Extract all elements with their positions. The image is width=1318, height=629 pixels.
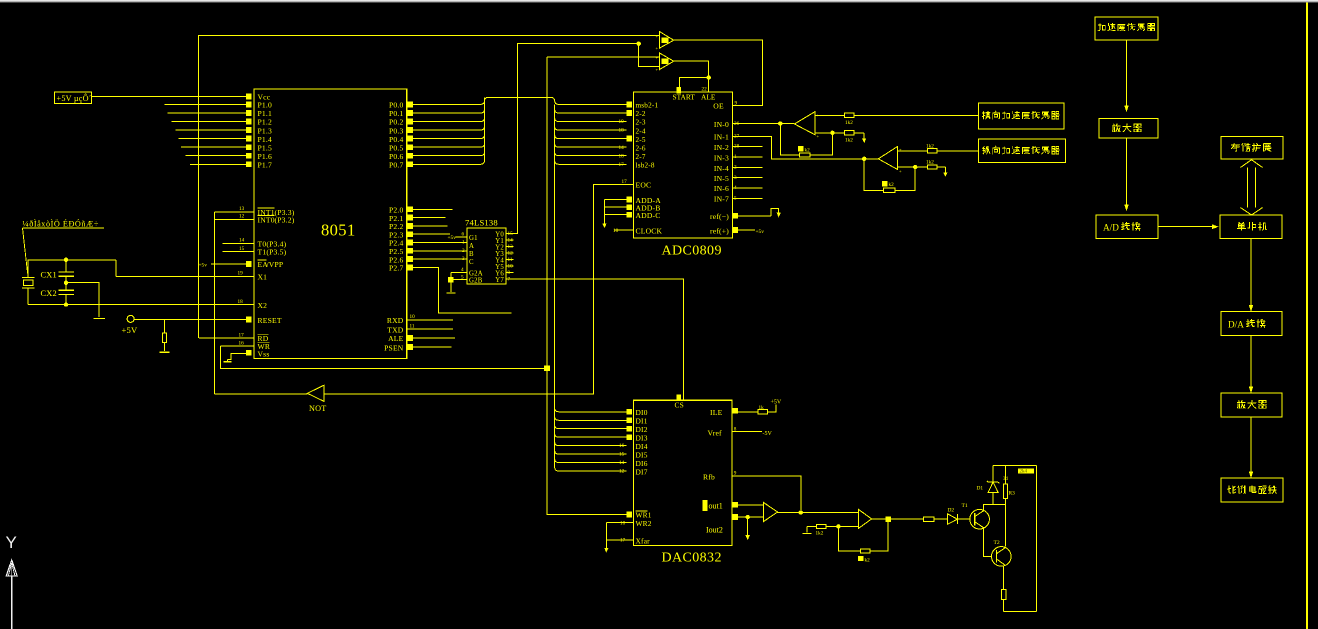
flow arrow 3 (A/D to MCU) (1157, 226, 1159, 228)
junction (Y0 net at opamps) (637, 42, 641, 46)
wire P0 bus horizontal (485, 97, 555, 101)
wire INT net vertical (214, 212, 216, 394)
flowchart box: accel sensor (1095, 17, 1158, 40)
ground arrow (Xfar) (604, 548, 608, 553)
svg-text:+5V: +5V (122, 325, 139, 335)
svg-text:IN-2: IN-2 (714, 143, 729, 152)
U1 pin EA/VPP +5v (211, 263, 246, 265)
junction node (X1 net) (64, 258, 68, 262)
svg-text:12: 12 (508, 251, 514, 257)
svg-text:Vss: Vss (258, 350, 270, 359)
op-amp U9 (764, 503, 778, 522)
svg-text:IN-0: IN-0 (714, 120, 729, 129)
sensor label box (lateral) (978, 103, 1064, 129)
U1 pin INT0(P3.2) (215, 218, 254, 220)
wires bus to U3 data inputs (555, 100, 627, 104)
svg-text:D/A: D/A (1228, 320, 1244, 330)
wire U5 output to U3 OE (674, 40, 763, 105)
svg-text:DI7: DI7 (636, 467, 648, 476)
svg-text:16: 16 (239, 341, 245, 347)
flowchart box: prop. electromagnet (1221, 478, 1283, 502)
wire Y0 to U6 input (639, 44, 660, 67)
svg-text:2k4: 2k4 (1020, 470, 1028, 475)
svg-text:2-4: 2-4 (636, 127, 646, 135)
ground (R5) (159, 351, 169, 353)
svg-text:X2: X2 (258, 301, 268, 310)
resistor R14 feedback U10 (838, 526, 860, 551)
junction (IN-1) (862, 157, 866, 161)
svg-text:T2: T2 (994, 540, 1000, 546)
crystal XT body (23, 280, 33, 285)
svg-text:14: 14 (239, 238, 245, 244)
resistor R13 1k2 (U10 -in) (807, 525, 816, 527)
svg-text:G2B: G2B (469, 278, 483, 285)
resistor R3 (1004, 466, 1006, 485)
svg-text:Y: Y (6, 533, 17, 552)
svg-text:Y7: Y7 (495, 277, 504, 284)
wire ADD common (604, 200, 606, 225)
svg-text:WR2: WR2 (636, 519, 652, 528)
svg-text:TXD: TXD (387, 325, 404, 334)
resistor R15 (924, 517, 934, 521)
svg-text:+: + (817, 134, 820, 139)
svg-text:k2: k2 (889, 182, 895, 188)
U2 pin G2A (451, 271, 467, 273)
ground (R13) (806, 526, 808, 532)
electromagnet supply rail (993, 465, 1037, 467)
flowchart box: A/D convert (1096, 215, 1158, 239)
flowchart box: D/A convert (1221, 312, 1282, 336)
wire IN-0 (733, 123, 795, 125)
svg-text:10: 10 (613, 228, 619, 234)
svg-text:Vref: Vref (708, 429, 723, 438)
wires Y1-Y6 stubs (506, 239, 514, 241)
transistor T2 (992, 547, 1012, 567)
U1 pin T1(P3.5) (223, 251, 254, 253)
svg-text:T1(P3.5): T1(P3.5) (258, 248, 287, 257)
svg-text:+: + (656, 34, 659, 39)
svg-text:+5v: +5v (756, 229, 765, 235)
wire T1 emitter to T2 (984, 528, 992, 557)
svg-text:CS: CS (675, 401, 684, 410)
svg-text:-5V: -5V (763, 431, 773, 437)
leader line to crystal (23, 228, 28, 274)
wire P0 bus vertical (484, 97, 486, 100)
wire crystal top (28, 260, 116, 278)
junction (U8 -in) (913, 165, 917, 169)
window top border strip (0, 0, 1318, 3)
resistor R12 1k (ILE pullup) (738, 411, 758, 413)
UCS icon arrow (6, 560, 17, 576)
U1 pins Vcc,P1.0-P1.7 (squares+wires) (246, 94, 252, 100)
wire WR to opamp U6 input (547, 56, 659, 58)
wire X1 bend (115, 260, 117, 277)
wire crystal bottom (27, 288, 29, 305)
diode D2 (948, 514, 958, 524)
U2 pin G2B (451, 279, 467, 281)
svg-text:15: 15 (239, 246, 245, 252)
resistor R7 1k2 (U7 -in) (815, 132, 844, 134)
flow arrow 4 (MCU down) (1250, 239, 1252, 306)
ground (Vss) (227, 360, 229, 362)
svg-text:1k2: 1k2 (926, 160, 934, 166)
sensor label box (longitudinal) (978, 139, 1065, 163)
electromagnet loop right (1036, 466, 1038, 612)
svg-text:X1: X1 (258, 273, 268, 282)
svg-text:P1.7: P1.7 (258, 161, 273, 170)
flow arrow 5 (1250, 336, 1252, 387)
op-amp U5 (659, 32, 673, 49)
svg-text:k2: k2 (805, 147, 811, 153)
svg-text:+: + (899, 147, 902, 152)
svg-text:10: 10 (410, 314, 416, 320)
svg-text:15: 15 (619, 452, 625, 458)
svg-text:18: 18 (619, 153, 625, 159)
resistor R5 (reset pulldown) (163, 320, 165, 334)
svg-text:19: 19 (238, 271, 244, 277)
wire Iout2 to U9 (738, 516, 764, 518)
svg-text:IN-4: IN-4 (714, 164, 729, 173)
svg-text:R3: R3 (1009, 491, 1016, 497)
svg-text:3: 3 (462, 256, 465, 262)
svg-text:3d: 3d (1003, 477, 1008, 482)
svg-text:IN-1: IN-1 (714, 133, 729, 142)
svg-text:EOC: EOC (636, 181, 652, 190)
op-amp U7 (IN-0) (795, 112, 816, 135)
junction (IN-0) (778, 121, 782, 125)
svg-text:17: 17 (622, 179, 628, 185)
svg-text:G2A: G2A (469, 271, 483, 278)
svg-text:OE: OE (713, 102, 724, 111)
svg-text:CLOCK: CLOCK (636, 226, 663, 235)
svg-text:D1: D1 (977, 486, 984, 492)
svg-text:4: 4 (461, 267, 464, 273)
resistor R9 1k2 (U8 +in) (898, 150, 928, 152)
svg-text:k2: k2 (865, 557, 871, 563)
svg-text:NOT: NOT (309, 404, 326, 413)
svg-text:+5V µçÔ´: +5V µçÔ´ (57, 93, 92, 103)
flowchart box: memory expand (1221, 136, 1283, 159)
svg-text:+: + (656, 45, 659, 50)
svg-text:IN-7: IN-7 (714, 195, 729, 204)
svg-text:G1: G1 (469, 235, 478, 242)
svg-text:1k2: 1k2 (926, 143, 934, 149)
svg-text:1k2: 1k2 (845, 137, 853, 143)
wire D2 to T1 (957, 518, 970, 520)
svg-text:START: START (673, 92, 696, 101)
wire top net (RD to opamp U5) (199, 36, 660, 338)
wires bus to U4 DI inputs (555, 408, 627, 412)
svg-text:1k: 1k (759, 405, 765, 411)
wire P2.1 stub (413, 217, 446, 219)
wire T1 collector (984, 505, 1006, 511)
wire EOC to NOT (right part) (324, 184, 634, 394)
svg-text:+: + (656, 67, 659, 72)
svg-text:out1: out1 (709, 502, 723, 511)
resistor R10 1k2 (U8 -in) (898, 166, 916, 168)
flowchart box: amplifier 1 (1099, 119, 1158, 138)
ground arrow (ADD) (604, 225, 606, 226)
ground arrow (R10) (944, 167, 946, 173)
transistor T1 (970, 509, 990, 529)
svg-text:CX1: CX1 (41, 270, 57, 279)
svg-text:PSEN: PSEN (384, 343, 404, 352)
diode D1 (zener) (992, 466, 994, 483)
svg-text:14: 14 (619, 145, 625, 151)
svg-text:18: 18 (619, 128, 625, 134)
svg-text:ALE: ALE (701, 92, 716, 101)
wire U10 out (872, 518, 886, 520)
svg-text:ILE: ILE (710, 408, 723, 417)
flow arrow 1 (1126, 40, 1128, 106)
flow arrow 6 (1250, 417, 1252, 472)
svg-text:+5v: +5v (448, 235, 457, 241)
svg-text:5: 5 (461, 275, 464, 281)
sheet border line (right) (1306, 3, 1308, 629)
wire Vcc (label to pin) (92, 96, 246, 98)
wire ref(+) +5v (738, 229, 755, 231)
svg-text:2-5: 2-5 (636, 136, 646, 144)
wire U9 out to U10 (778, 512, 859, 514)
wire bus vertical (to DAC) (554, 104, 556, 467)
svg-text:6: 6 (462, 232, 465, 238)
U4 pin CS (677, 395, 682, 401)
resistor R16 (emitter) (1003, 566, 1005, 589)
wire P2.0 stub (413, 208, 453, 210)
svg-text:T1: T1 (962, 503, 968, 509)
svg-text:13: 13 (239, 206, 245, 212)
junction square (U10 out) (886, 516, 891, 521)
junction (START/ALE net) (707, 75, 711, 79)
svg-text:18: 18 (620, 520, 626, 526)
wire P2.7 jog (413, 267, 512, 313)
junction (Iout2) (746, 515, 750, 519)
svg-text:74LS138: 74LS138 (465, 218, 498, 228)
wire cap mid to ground (66, 283, 99, 317)
svg-text:ALE: ALE (388, 334, 404, 343)
svg-text:IN-5: IN-5 (714, 174, 729, 183)
wire P2.5 to U2 B (413, 250, 467, 252)
flow arrow 2 (1126, 138, 1128, 205)
svg-text:¼ðÌåxòÌÖ ÉÐÓñÆ÷: ¼ðÌåxòÌÖ ÉÐÓñÆ÷ (23, 219, 99, 229)
U1 pin WR (220, 345, 254, 347)
+5V power source label box (55, 92, 92, 103)
U1 pin RD (199, 337, 254, 339)
svg-text:A: A (469, 243, 474, 250)
U4 pin Iout1 (702, 500, 707, 511)
decoder U2 74LS138 body (467, 228, 506, 284)
selected resistor R4 2k4 (1018, 468, 1034, 473)
wire U6 output to START/ALE (674, 61, 709, 92)
U1 pin INT1(P3.3) (215, 211, 254, 213)
flowchart box: amplifier 2 (1221, 393, 1282, 417)
wire P2.2 stub (413, 225, 448, 227)
wire WR net (220, 346, 547, 368)
svg-text:2-6: 2-6 (636, 144, 646, 152)
junction node (cap mid) (64, 281, 68, 285)
flowchart box: single-chip MCU (1220, 215, 1282, 239)
svg-text:ADC0809: ADC0809 (662, 244, 722, 259)
svg-text:1: 1 (462, 240, 465, 246)
resistor R11 feedback U8 (895, 167, 915, 190)
ADC U3 ADC0809 body (634, 92, 733, 238)
+5V terminal circle (127, 315, 134, 322)
svg-text:Xfar: Xfar (636, 536, 651, 545)
resistor R6 1k2 (U7 +in) (815, 115, 844, 117)
svg-text:P2.7: P2.7 (389, 264, 404, 273)
svg-text:2: 2 (462, 248, 465, 254)
svg-text:12: 12 (619, 469, 625, 475)
svg-text:msb2-1: msb2-1 (636, 102, 659, 110)
svg-text:2-2: 2-2 (636, 110, 646, 118)
DAC U4 DAC0832 body (633, 400, 732, 545)
resistor R8 feedback U7 (780, 124, 799, 155)
svg-text:2-7: 2-7 (636, 153, 646, 161)
ground arrow (Iout2) (747, 517, 749, 535)
svg-text:Iout2: Iout2 (706, 526, 723, 535)
wire ref(-) ground (738, 215, 771, 217)
svg-text:B: B (469, 251, 474, 258)
U1 pin X2 (28, 304, 254, 306)
svg-text:17: 17 (619, 162, 625, 168)
svg-text:/VPP: /VPP (267, 260, 284, 269)
svg-text:ref(−): ref(−) (710, 212, 729, 221)
svg-text:DAC0832: DAC0832 (662, 551, 722, 566)
ground (cap mid) (93, 317, 105, 319)
junction (U7 -in) (830, 131, 834, 135)
svg-text:C: C (469, 259, 474, 266)
svg-text:RXD: RXD (387, 316, 404, 325)
junction (WR net / vertical) (544, 366, 550, 372)
wire P2.3 stub (413, 233, 450, 235)
svg-text:18: 18 (238, 299, 244, 305)
svg-text:A/D: A/D (1103, 223, 1119, 233)
svg-text:8051: 8051 (321, 221, 356, 240)
junction (U10 -in) (836, 524, 840, 528)
U3 pin START square (677, 87, 682, 93)
svg-text:IN-6: IN-6 (714, 184, 729, 193)
svg-text:+: + (899, 168, 902, 173)
wire IN-1 (733, 136, 879, 159)
wires IN-2..IN-7 stubs (733, 146, 763, 148)
svg-text:16: 16 (619, 443, 625, 449)
U1 pin X1 (116, 275, 254, 277)
svg-text:17: 17 (239, 332, 245, 338)
wire WR2/Xfar common (605, 523, 607, 549)
svg-text:9: 9 (735, 101, 738, 107)
wire Y7 to U4 CS (506, 279, 683, 400)
ground (U2 G2) (446, 292, 455, 294)
wire P2.6 to U2 C (413, 258, 467, 260)
svg-text:CX2: CX2 (41, 289, 57, 298)
svg-text:ADD-C: ADD-C (636, 211, 661, 220)
svg-text:lsb2-8: lsb2-8 (636, 162, 655, 170)
double arrow (memory/mcu) (1248, 168, 1256, 208)
crystal XT plates (22, 277, 34, 279)
svg-text:2-3: 2-3 (636, 119, 646, 127)
svg-text:RESET: RESET (258, 316, 282, 325)
svg-text:11: 11 (410, 324, 415, 330)
svg-text:(P3.2): (P3.2) (275, 216, 295, 225)
junction (U9 out/Rfb) (799, 510, 803, 514)
svg-text:+5v: +5v (199, 262, 208, 268)
svg-text:19: 19 (619, 119, 625, 125)
svg-text:+: + (656, 55, 659, 60)
svg-text:1k2: 1k2 (816, 531, 824, 537)
U1 pin T0(P3.4) (223, 242, 254, 244)
wire Vss to ground (228, 354, 246, 360)
U1 pin RESET (134, 319, 246, 321)
svg-text:ref(+): ref(+) (710, 226, 729, 235)
svg-text:D2: D2 (948, 508, 955, 514)
wire Y0 to top opamps (506, 44, 639, 234)
wire G2 to ground (450, 282, 452, 291)
electromagnet loop bottom (1004, 610, 1037, 612)
ground arrow (R7) (863, 133, 865, 139)
wire P2.4 to U2 A (413, 242, 467, 244)
svg-text:IN-3: IN-3 (714, 153, 729, 162)
U1 pin Vss (246, 350, 252, 356)
op-amp U10 (859, 510, 872, 529)
wire Iout1 to U9 (738, 504, 764, 506)
op-amp U6 (659, 53, 673, 70)
svg-text:14: 14 (619, 460, 625, 466)
svg-text:12: 12 (239, 214, 245, 220)
svg-text:+: + (817, 112, 820, 117)
wire NOT output (left part) (215, 393, 308, 395)
svg-text:+5V: +5V (771, 400, 782, 406)
svg-text:1k2: 1k2 (845, 120, 853, 126)
NOT gate (307, 385, 323, 401)
op-amp U8 (IN-1) (878, 146, 897, 169)
junction node (X2 net) (64, 302, 68, 306)
svg-text:INT0: INT0 (258, 216, 275, 225)
svg-text:P0.7: P0.7 (389, 161, 404, 170)
wire WR vertical to DAC WR1 (547, 57, 627, 514)
MCU U1 8051 body (254, 89, 407, 358)
svg-text:Rfb: Rfb (703, 473, 715, 482)
junction (G2A/G2B) (450, 272, 452, 279)
